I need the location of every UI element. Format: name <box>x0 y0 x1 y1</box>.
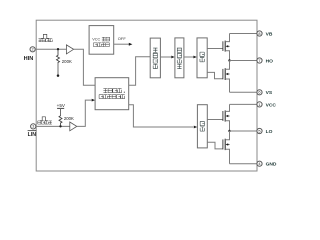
block: level shifter 电平位移 <box>150 38 160 78</box>
wire HIN input <box>35 48 66 50</box>
block: pulse filter 脉冲滤波 <box>175 38 184 78</box>
svg-text:2: 2 <box>32 47 34 52</box>
svg-text:8: 8 <box>258 31 260 36</box>
wire OFF output <box>114 43 130 45</box>
svg-text:HO: HO <box>266 58 274 64</box>
IC boundary (outer block border) <box>36 20 257 171</box>
wire VB rail to pin 8 <box>230 33 258 35</box>
wire VCC rail to pin 1 <box>230 103 258 105</box>
svg-text:200K: 200K <box>64 116 74 121</box>
svg-text:6: 6 <box>258 90 260 95</box>
svg-text:LO: LO <box>266 129 273 135</box>
svg-text:VS: VS <box>266 90 273 96</box>
label 逻辑输入 (LIN) <box>38 121 41 124</box>
svg-text:200K: 200K <box>62 59 72 64</box>
resistor R2 200K (pull-up to +5V) <box>59 116 62 127</box>
pin 2 circle (HIN) <box>30 47 35 52</box>
node LO junction <box>228 130 230 132</box>
svg-text:VCC: VCC <box>266 102 277 108</box>
wire resistor to terminal <box>57 63 59 75</box>
label 关断保护 <box>93 43 97 47</box>
svg-text:VCC: VCC <box>92 38 100 42</box>
resistor R1 200K (pull-down) <box>57 50 60 63</box>
pin 5 circle (LO) <box>257 128 262 133</box>
node junction on HIN wire <box>57 48 59 50</box>
svg-text:3: 3 <box>32 124 34 129</box>
wire HO to pin 7 <box>230 60 258 62</box>
svg-text:7: 7 <box>258 58 260 63</box>
pin 1 circle (VCC) <box>257 102 262 107</box>
mosfet M3 (low-side upper) <box>222 111 224 121</box>
wire high driver to M2 gate (stepped) <box>207 72 223 78</box>
block: low-side driver 驱动 <box>197 105 207 148</box>
wire low driver to M4 gate (stepped) <box>207 142 222 149</box>
svg-text:1: 1 <box>258 102 260 107</box>
wire pulse filter to driver <box>184 56 194 58</box>
arrow into blanking block <box>92 99 95 102</box>
pin 3 circle (LIN) <box>31 124 36 129</box>
block: blanking + dead-time circuit <box>95 78 129 110</box>
node HO junction <box>228 59 230 61</box>
svg-text:LIN: LIN <box>28 132 37 138</box>
wire level shifter to pulse filter <box>160 56 171 58</box>
svg-text:GND: GND <box>266 162 277 168</box>
wire high driver to M1 gate <box>207 48 223 50</box>
wire U2 output to blanking block <box>77 100 92 126</box>
block: high-side driver 驱动 <box>197 38 207 78</box>
mosfet M1 (high-side upper) <box>222 41 224 51</box>
node junction on LIN wire <box>59 125 61 127</box>
arrow into pulse filter <box>171 56 174 59</box>
svg-text:5: 5 <box>258 128 260 133</box>
label 死区时间电路 <box>99 95 103 99</box>
pin 7 circle (HO) <box>257 58 262 63</box>
mosfet M2 (high-side lower) <box>222 69 224 79</box>
supply bar +5V <box>57 107 64 109</box>
label 逻辑输入 (HIN) <box>39 39 42 42</box>
buffer U2 (LIN input buffer) <box>70 122 77 131</box>
wire LIN input <box>36 125 70 127</box>
svg-text:VB: VB <box>266 31 273 37</box>
arrow into high-side driver <box>193 56 196 59</box>
logic-input pulse icon (HIN) <box>41 34 49 38</box>
wire VS rail to pin 6 <box>230 91 258 93</box>
mosfet M4 (low-side lower) <box>222 139 224 149</box>
pin 6 circle (VS) <box>257 90 262 95</box>
pin 8 circle (VB) <box>257 31 262 36</box>
label 消隐电路、 <box>103 89 107 93</box>
logic-input pulse icon (LIN) <box>40 117 48 121</box>
svg-text:+5V: +5V <box>57 103 66 108</box>
block: VCC undervoltage shutdown protection <box>89 26 114 55</box>
wire low driver to M3 gate <box>207 119 222 121</box>
terminal dot below R1 <box>57 74 60 77</box>
arrowhead OFF <box>129 43 133 46</box>
wire LO to pin 5 <box>230 130 258 132</box>
wire blanking upper output to level shifter <box>129 57 151 85</box>
wire U1 output to blanking block <box>74 49 96 85</box>
svg-text:HIN: HIN <box>24 56 34 62</box>
arrow into low-side driver <box>194 126 197 129</box>
buffer U1 (HIN input buffer) <box>66 45 73 54</box>
pin 4 circle (GND) <box>257 161 262 166</box>
svg-text:OFF: OFF <box>118 36 127 41</box>
wire GND rail to pin 4 <box>230 163 258 165</box>
wire blanking lower output to low-side driver <box>129 105 194 127</box>
wire +5V to resistor <box>60 108 62 116</box>
